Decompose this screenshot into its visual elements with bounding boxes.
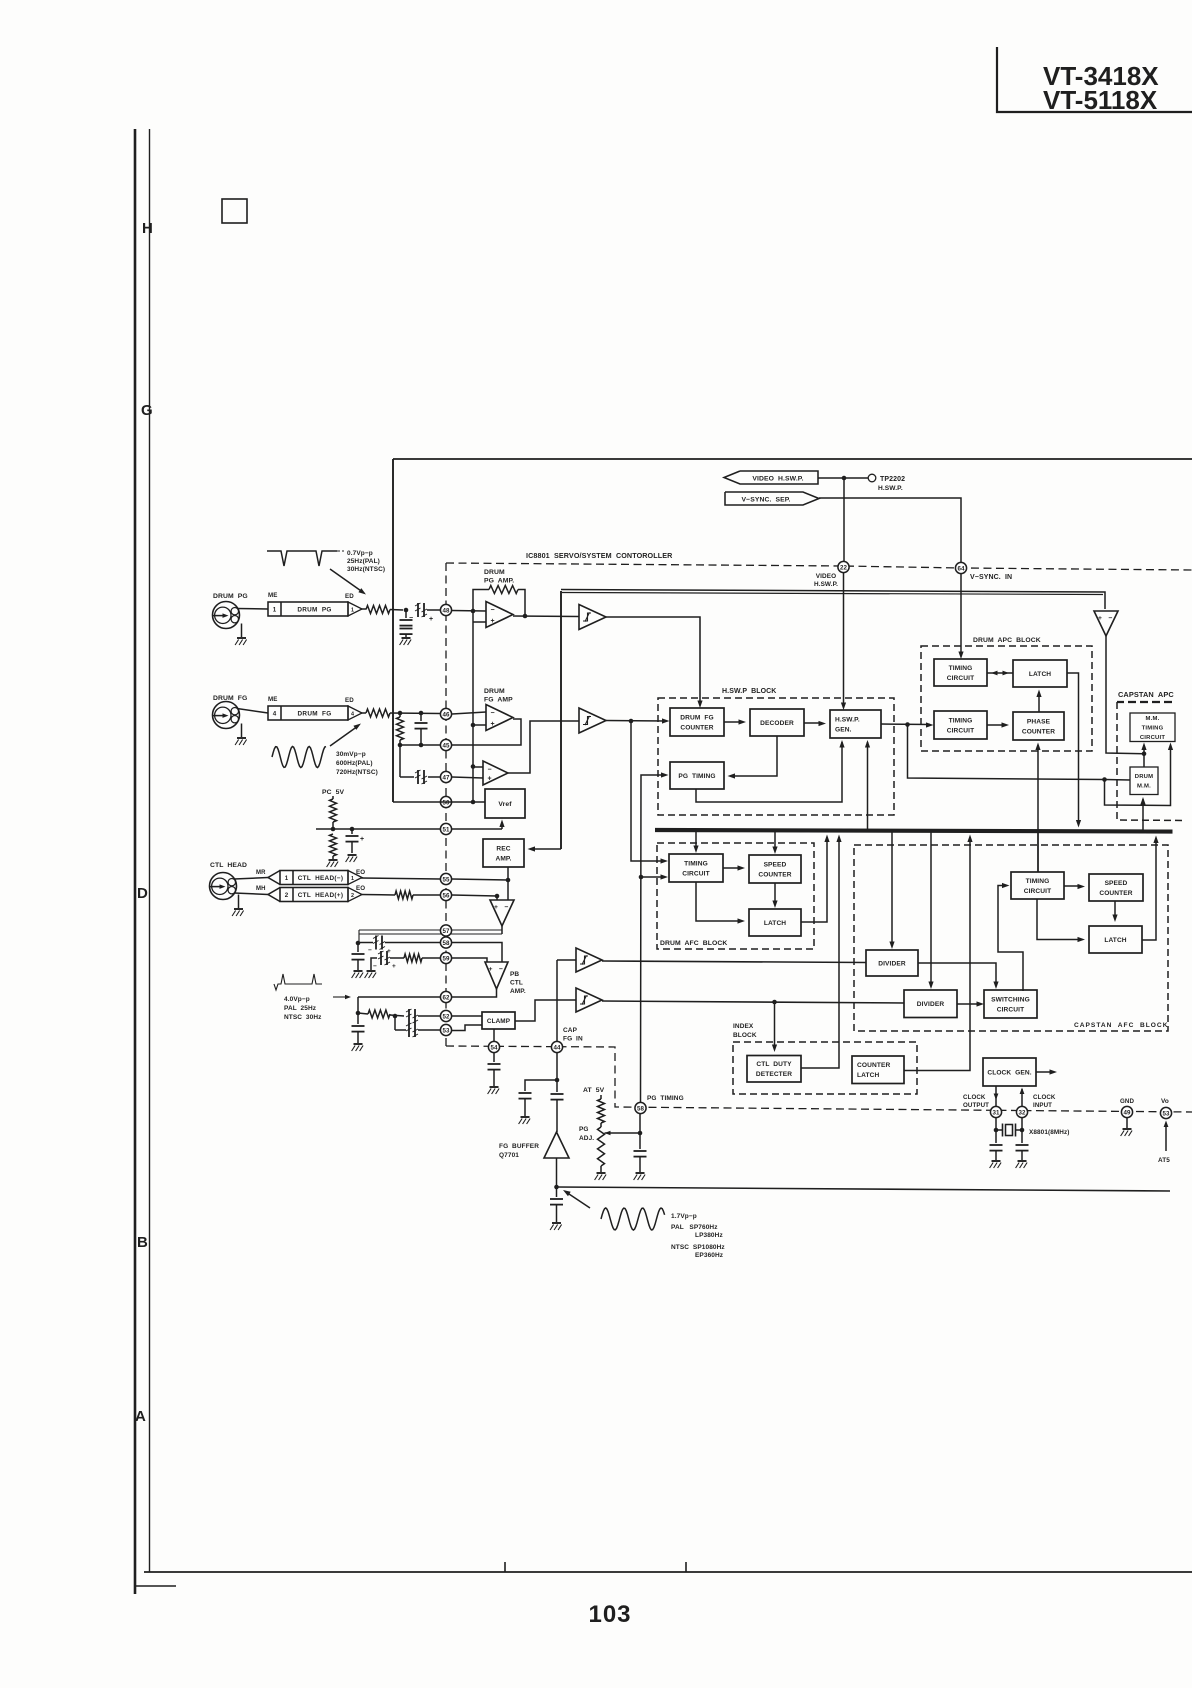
wire 53 line [395,1029,406,1031]
wire pin 45 feedback [452,719,521,745]
pin 62 [440,991,451,1002]
wire pin 22 to H.SW.P. GEN [843,573,845,708]
wire pg cap down [639,1157,641,1172]
arrow into switching top [993,982,998,990]
svg-text:PG: PG [579,1126,589,1133]
svg-text:DRUM APC BLOCK: DRUM APC BLOCK [973,637,1041,644]
svg-text:DIVIDER: DIVIDER [878,960,906,967]
svg-text:52: 52 [443,1013,450,1020]
svg-text:22: 22 [840,564,847,571]
svg-text:CLOCK GEN.: CLOCK GEN. [987,1069,1031,1076]
wire 44 shunt down [524,1099,526,1116]
connector 2 CTL HEAD(+) [268,888,362,902]
wire index branch down [774,1002,776,1048]
ground 44 shunt [519,1117,531,1124]
svg-text:2: 2 [351,893,354,899]
svg-text:62: 62 [443,994,450,1001]
svg-text:DRUM FG: DRUM FG [298,711,332,718]
svg-text:DRUM PG: DRUM PG [213,593,248,600]
wire U3 output [508,721,579,773]
node 52 net [356,1011,361,1016]
svg-text:51: 51 [443,826,450,833]
svg-text:−: − [368,947,372,954]
svg-text:MR: MR [256,870,266,876]
leader to text [337,550,344,552]
wire timing to speed 1 [723,867,741,869]
svg-text:CTL: CTL [510,980,523,987]
block DRUM M.M. [1130,767,1158,795]
wire phase to latch [1038,692,1040,712]
label 0.7Vp-p [347,550,385,573]
pin 55 [440,873,451,884]
svg-text:DECODER: DECODER [760,720,794,727]
svg-text:LATCH: LATCH [1104,937,1126,944]
pin 22 [838,561,849,572]
arrow into REC AMP [528,846,536,851]
wire pg timing up [641,775,666,1103]
wire pg timing feedback [696,742,842,802]
svg-text:M.M.: M.M. [1137,784,1151,790]
pin 54 [488,1041,499,1052]
wire pin 56 to node [452,895,497,896]
wire pin 58 to PB amp [452,943,502,963]
pin 56 [440,889,451,900]
wire pin 49 ground [1126,1118,1128,1129]
pin 47 [440,771,451,782]
svg-text:FG BUFFER: FG BUFFER [499,1143,539,1150]
wire comparator capfg to divider1 [602,961,866,963]
capacitor series pin 47 [415,770,427,784]
pin 44 [551,1041,562,1052]
wire REC AMP bottom [507,867,509,900]
node pg timing branch [639,875,644,880]
wire mm loop [1105,745,1171,806]
capacitor 52 net shunt [352,1013,365,1043]
svg-text:59: 59 [443,955,450,962]
comparator drum PG [579,605,606,630]
wire counter to decoder [724,721,742,723]
feedback loop wire [473,590,489,612]
capacitor series pin 58 [373,936,385,950]
resistor PC5V upper [330,799,337,822]
dashed box DRUM APC BLOCK [921,646,1092,751]
wire head to ctl connector 1 [234,878,268,880]
svg-text:CLOCK: CLOCK [1033,1094,1056,1101]
pin 50 [440,796,451,807]
capacitor xtal left [990,1145,1003,1151]
arrow into divider2 top [928,982,933,990]
wire bus to speed counter 1 [774,832,776,851]
wire to REC AMP [531,848,561,850]
capacitor FG shunt [415,713,428,745]
resistor ctl2 [395,891,413,899]
svg-text:+: + [488,776,492,783]
label DRUM PG AMP. [484,569,514,585]
wire cap fg comparator input [557,959,576,961]
wire pin 32 to clock gen [1021,1089,1023,1107]
wire resistor to node [332,822,334,829]
svg-text:CIRCUIT: CIRCUIT [947,675,974,682]
svg-text:Vref: Vref [498,801,512,808]
svg-text:VT-5118X: VT-5118X [1043,85,1158,115]
wire timing2 to phase [987,724,1005,726]
svg-text:−: − [488,767,492,774]
svg-text:CIRCUIT: CIRCUIT [1140,735,1165,741]
ctl head symbol [210,873,237,900]
svg-text:PAL 25Hz: PAL 25Hz [284,1005,317,1012]
svg-text:53: 53 [443,1027,450,1034]
svg-text:−: − [499,966,503,973]
wire 57 left join [358,930,360,943]
label TP2202 [878,476,905,492]
svg-text:AT 5V: AT 5V [583,1087,605,1094]
capacitor shunt drum PG 2 [400,629,413,635]
op-amp ctl sense [490,900,514,926]
svg-text:PB: PB [510,971,519,978]
arrow into Vref bottom [499,820,504,828]
pin 57 [440,925,451,936]
arrow into clock gen bottom [1020,1088,1025,1095]
block CTL DUTY DETECTER [747,1056,801,1083]
arrow into timing circuit left 2 [661,874,669,879]
arrow into latch cap top [1112,915,1117,923]
wire pot bottom [600,1166,602,1172]
resistor pin 59 [404,954,422,962]
label 1.7Vp-p [671,1213,725,1259]
svg-text:B: B [137,1234,148,1251]
ground ctl node [352,971,364,978]
svg-text:64: 64 [958,565,965,572]
wire pin 64 to timing circuit [960,574,962,656]
wire timing to speed cap [1064,885,1081,887]
svg-text:AMP.: AMP. [510,988,526,995]
waveform capstan fg sine [601,1208,665,1230]
bottom rule tick 2 [685,1562,687,1572]
wire pin 57 line b [359,933,502,935]
wire pin 58 line [358,942,373,944]
wire to pin 53 [418,1029,440,1031]
ground xtal left [990,1161,1002,1168]
ground drum FG head [235,738,247,745]
IC8801 dashed boundary top [446,563,1192,570]
node vref FG [471,723,476,728]
block DIVIDER 1 [866,950,918,976]
ground pin 49 [1121,1129,1133,1136]
svg-text:CIRCUIT: CIRCUIT [682,870,709,877]
svg-text:49: 49 [1124,1109,1131,1116]
transistor FG BUFFER Q7701 [544,1132,569,1158]
resistor drum PG input [366,606,390,614]
ground drum PG cap [400,638,412,645]
arrow latch1 to bus [824,835,829,843]
annotation arrow ctl [333,995,351,999]
wire decoder to gen [804,722,822,724]
wire PC5V [332,796,334,799]
waveform drum PG pulses [267,551,337,566]
ground drum PG head [235,638,247,645]
node drum PG input [404,608,409,613]
svg-text:COUNTER: COUNTER [680,724,713,731]
IC8801 dashed boundary bottom jog [446,1046,1192,1112]
svg-text:ME: ME [268,592,277,599]
svg-text:56: 56 [443,892,450,899]
svg-text:REC: REC [496,845,510,852]
svg-text:1: 1 [351,876,354,882]
svg-text:V−SYNC. IN: V−SYNC. IN [970,574,1012,581]
svg-text:103: 103 [588,1601,631,1628]
svg-text:CAPSTAN APC: CAPSTAN APC [1118,690,1174,699]
block TIMING CIRCUIT afc1 [669,854,723,882]
svg-text:TIMING: TIMING [1142,725,1164,731]
wire pin 53 down [1165,1126,1167,1151]
svg-text:PHASE: PHASE [1027,718,1051,725]
dashed box CAPSTAN AFC BLOCK [854,845,1168,1031]
svg-text:58: 58 [637,1105,644,1112]
arrow into DECODER [739,719,747,724]
wire timing bottom to latch cap [1037,899,1081,940]
wire bus to divider2 [930,832,932,986]
svg-text:NTSC SP1080Hz: NTSC SP1080Hz [671,1244,725,1251]
arrow into PG TIMING right [728,773,736,778]
bidirectional wire timing-latch [987,672,1013,674]
svg-text:+: + [1098,615,1102,622]
resistor drum FG input [366,709,390,717]
svg-text:+: + [392,963,396,970]
feedback resistor drum PG amp [489,586,518,594]
node video h.sw.p. [842,476,847,481]
svg-text:Vo: Vo [1161,1098,1169,1105]
svg-text:DRUM: DRUM [484,569,505,576]
annotation arrow FG [330,724,361,747]
svg-text:−: − [1109,615,1113,622]
svg-text:INPUT: INPUT [1033,1102,1052,1109]
comparator drum FG [579,708,606,733]
node gen output [905,722,910,727]
svg-text:600Hz(PAL): 600Hz(PAL) [336,760,373,767]
pin 45 [440,739,451,750]
svg-text:FG IN: FG IN [563,1036,583,1043]
svg-text:CLOCK: CLOCK [963,1094,986,1101]
svg-text:25Hz(PAL): 25Hz(PAL) [347,558,380,565]
svg-text:M.M.: M.M. [1146,716,1160,722]
svg-text:LP380Hz: LP380Hz [695,1232,723,1239]
ground 52 net [352,1044,364,1051]
svg-text:−: − [505,904,509,911]
arrow toward pin 31 [994,1094,999,1101]
svg-text:H.SW.P.: H.SW.P. [878,485,903,492]
capacitor series pin 52 [406,1009,418,1023]
block M.M. TIMING CIRCUIT [1130,713,1175,742]
node FG 4 [419,743,424,748]
wire PB amp out [358,989,497,997]
node pg timing net [638,1131,643,1136]
pin 53 Vo [1160,1107,1171,1118]
svg-text:VIDEO: VIDEO [816,573,836,580]
block CLOCK GEN. [983,1058,1036,1086]
wire ctl 59 branch [371,958,377,970]
svg-text:ADJ.: ADJ. [579,1135,594,1142]
arrow into switching left [977,1001,985,1006]
node xtal right [1020,1128,1025,1133]
capacitor ctl node shunt [352,943,365,970]
label PB CTL AMP. [510,971,526,995]
svg-text:LATCH: LATCH [1029,671,1051,678]
wire divider1 output [918,963,996,986]
svg-text:ED: ED [345,593,354,600]
wire v-sync to pin 64 [819,498,961,562]
svg-text:V−SYNC. SEP.: V−SYNC. SEP. [742,497,791,504]
svg-text:CTL HEAD(−): CTL HEAD(−) [298,875,344,882]
svg-text:SPEED: SPEED [1105,880,1128,887]
pin 58 [440,937,451,948]
capacitor pg timing [634,1151,647,1157]
svg-text:1: 1 [351,608,354,614]
wire resistor to pin 46 [390,712,440,715]
drum PG head ground stub [241,624,243,638]
wire pin 50 line [393,801,485,803]
ground ctl head [232,909,244,916]
svg-text:48: 48 [443,607,450,614]
wire xtal right gnd [1021,1151,1023,1160]
pin 59 [440,952,451,963]
svg-text:1: 1 [285,875,289,882]
svg-text:NTSC 30Hz: NTSC 30Hz [284,1014,322,1021]
svg-text:46: 46 [443,711,450,718]
wire ctl amp out [501,926,503,934]
svg-text:47: 47 [443,774,450,781]
IC8801 dashed boundary left [445,563,447,1046]
vref rail vertical [472,611,474,802]
testpoint TP2202 [868,474,876,482]
svg-text:VIDEO H.SW.P.: VIDEO H.SW.P. [752,476,803,483]
wire h.sw.p. vertical trunk [560,591,562,849]
wire pin 47 to third amp [452,777,483,778]
wire connector to resistor [361,608,366,610]
node 52b [393,1014,398,1019]
svg-text:DRUM FG: DRUM FG [680,714,713,721]
svg-text:AT5: AT5 [1158,1157,1170,1164]
wire buffer out [556,1158,558,1187]
wire to shunt cap 44 [525,1080,557,1091]
comparator cap FG [576,948,602,972]
wire speed to latch cap [1114,901,1116,918]
ground pot [595,1173,607,1180]
svg-text:31: 31 [993,1109,1000,1116]
title block border [997,47,1192,112]
wire pin 59 to PB amp [452,958,487,962]
wire latch cap output [1142,838,1156,940]
connector 4 DRUM FG [268,706,362,720]
wire plus input FG [473,724,486,726]
node FG 3 [398,743,403,748]
svg-text:4.0Vp−p: 4.0Vp−p [284,996,310,1003]
wire cap to pin 47 [428,776,440,778]
svg-text:COUNTER: COUNTER [758,871,791,878]
bottom rule tick 1 [504,1562,506,1572]
connector 1 CTL HEAD(-) [268,871,362,885]
svg-text:57: 57 [443,928,450,935]
svg-text:+: + [491,618,495,625]
label FG BUFFER Q7701 [499,1143,539,1159]
arrow into speed counter top [772,847,777,855]
svg-text:PG TIMING: PG TIMING [647,1095,684,1102]
svg-text:D: D [137,885,148,902]
block PHASE COUNTER [1013,712,1064,740]
svg-text:DRUM PG: DRUM PG [297,607,331,614]
wire CLAMP to pin 54 [493,1029,495,1041]
arrowhead right [1003,671,1010,676]
potentiometer PG ADJ [598,1123,605,1166]
label pin 22 VIDEO H.SW.P. [814,573,838,588]
arrow into M.M. TIMING right bottom [1168,743,1173,751]
arrow into DRUM FG COUNTER top [697,701,702,709]
block DRUM FG COUNTER [670,708,724,736]
wire head to connector PG [237,608,268,611]
label 4.0Vp-p [284,996,322,1021]
wire ctl2 to resistor [361,894,395,897]
wire gen output [881,723,930,726]
arrow into gen bottom 2 [865,740,870,748]
svg-text:TP2202: TP2202 [880,476,905,483]
arrow into PHASE COUNTER [1002,722,1010,727]
wire gen bottom 2 [867,742,869,830]
wire to pin 52 [418,1015,440,1017]
svg-text:H.SW.P BLOCK: H.SW.P BLOCK [722,688,776,695]
arrow clock output right [1050,1069,1058,1074]
wire xtal left gnd [995,1151,997,1160]
svg-text:G: G [141,402,153,419]
svg-text:H: H [142,220,153,237]
svg-text:IC8801 SERVO/SYSTEM CONTOROL: IC8801 SERVO/SYSTEM CONTOROLLER [526,551,673,560]
svg-text:ED: ED [345,697,354,704]
svg-text:2: 2 [285,892,289,899]
arrow ctl duty to bus [836,835,841,843]
pin 32 [1016,1106,1027,1117]
svg-text:X8801(8MHz): X8801(8MHz) [1029,1129,1070,1136]
svg-text:TIMING: TIMING [949,665,973,672]
pin 46 [440,708,451,719]
capacitor buffer shunt [550,1187,563,1222]
arrowhead left [991,671,998,676]
capacitor 44 shunt [519,1093,532,1099]
pin 58 PG TIMING [635,1102,646,1113]
svg-text:DRUM: DRUM [484,688,505,695]
svg-text:LATCH: LATCH [857,1072,879,1079]
svg-text:+: + [489,966,493,973]
wire FG shunt down [399,745,401,777]
node ctl- [495,894,500,899]
wire to M.M. TIMING bottom [1143,745,1145,754]
node op-amp1 output [523,614,528,619]
arrow into M.M. TIMING bottom [1141,743,1146,751]
wire video h.sw.p. to pin 22 [843,478,845,561]
arrow into gen bottom 1 [839,740,844,748]
block DECODER [750,709,804,736]
svg-text:H.SW.P.: H.SW.P. [814,581,838,588]
node cap fg bottom [555,1078,560,1083]
ground xtal right [1016,1161,1028,1168]
wire pg timing vertical [639,1114,641,1150]
svg-text:30Hz(NTSC): 30Hz(NTSC) [347,566,385,573]
svg-text:EO: EO [356,885,365,892]
wire gen out down [908,725,1105,780]
svg-text:−: − [409,615,413,622]
wire h.sw.p. bus [561,590,1105,610]
wire comparator ctl to divider2 [602,1001,904,1003]
drum FG head ground stub [241,724,243,738]
node ctl network [356,941,361,946]
svg-text:+: + [491,721,495,728]
